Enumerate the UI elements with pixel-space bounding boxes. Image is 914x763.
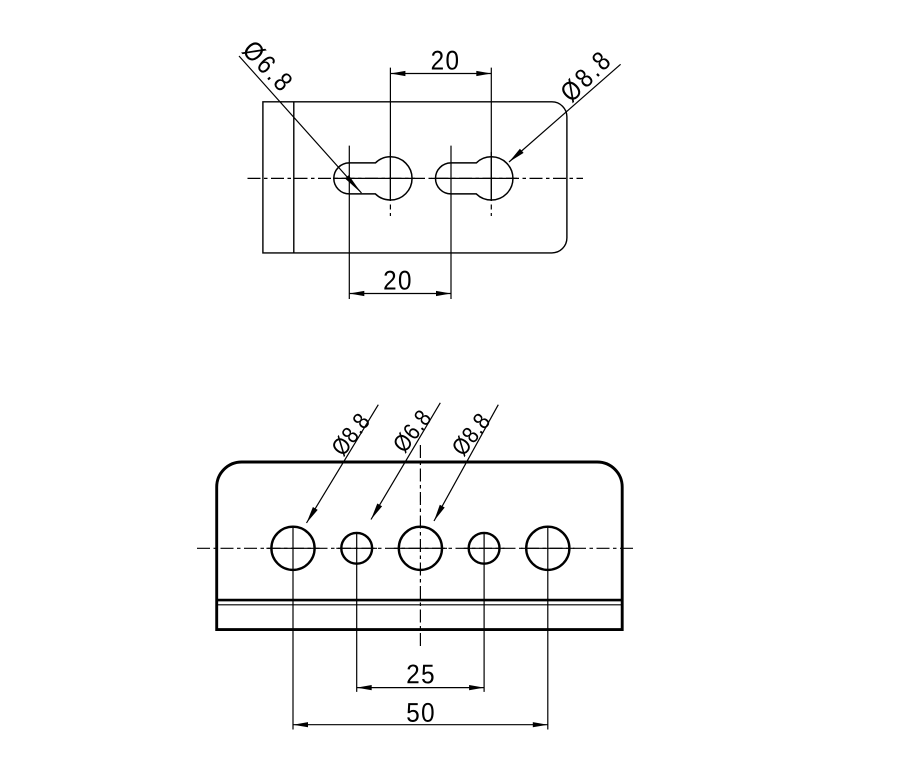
dimension 25 text xyxy=(407,664,433,683)
extension line left slot small circle xyxy=(348,146,350,299)
leader arrowhead hole 2 xyxy=(371,504,382,520)
vertical centerline right slot large circle xyxy=(490,68,492,216)
vertical centerline (bottom view middle) xyxy=(419,445,421,648)
leader arrowhead hole 1 xyxy=(307,507,318,523)
label diameter 8.8 (hole 3) xyxy=(450,412,491,458)
dimension 25 line xyxy=(357,687,484,689)
hole 3 (diameter 8.8) xyxy=(399,527,442,570)
dimension 20 (bottom) line xyxy=(349,293,451,295)
leader line diameter 8.8 to hole 3 xyxy=(434,405,498,521)
leader arrowhead diameter 6.8 xyxy=(345,175,362,193)
bend line (inner vertical edge) xyxy=(293,102,295,253)
horizontal centerline (top view) xyxy=(248,177,584,179)
dimension 20 (bottom) left arrowhead xyxy=(349,291,364,296)
hole 5 (diameter 8.8) xyxy=(526,527,569,570)
thick edge line (bottom view) xyxy=(217,599,623,602)
extension line hole 2 xyxy=(356,532,358,692)
thin edge line (bottom view) xyxy=(217,604,623,606)
left keyhole slot xyxy=(334,157,412,200)
horizontal centerline (bottom view) xyxy=(197,547,635,549)
centerline solid segment through left slot xyxy=(333,177,415,179)
dimension 50 line xyxy=(293,724,548,726)
extension line right slot small circle xyxy=(450,146,452,299)
right keyhole slot xyxy=(435,157,512,200)
vertical centerline left slot large circle xyxy=(389,68,391,216)
extension line hole 1 xyxy=(292,526,294,730)
hole 4 (diameter 6.8) xyxy=(469,533,500,564)
centerline solid segments through holes xyxy=(266,547,319,549)
dimension 20 (bottom) text xyxy=(384,271,410,290)
dimension 20 (top) line xyxy=(390,73,491,75)
leader line diameter 6.8 (top view) xyxy=(239,56,362,193)
part outline (top view plate) xyxy=(263,102,567,253)
extension line hole 5 xyxy=(547,526,549,730)
leader arrowhead hole 3 xyxy=(434,505,445,521)
dimension 20 (bottom) right arrowhead xyxy=(436,291,451,296)
label diameter 6.8 (hole 2) xyxy=(391,408,432,454)
dimension 50 text xyxy=(407,703,433,722)
label diameter 6.8 (top view) xyxy=(241,39,294,93)
leader arrowhead diameter 8.8 (top view) xyxy=(509,149,524,162)
leader line diameter 8.8 to hole 1 xyxy=(307,405,379,523)
dimension 50 right arrowhead xyxy=(533,722,548,727)
centerline solid segments through slot large circles xyxy=(389,152,391,201)
label diameter 8.8 (top view) xyxy=(558,50,611,103)
dimension 20 (top) left arrowhead xyxy=(390,71,405,76)
dimension 20 (top) text xyxy=(432,51,458,70)
dimension 25 left arrowhead xyxy=(357,685,372,690)
part outline (bottom view plate) xyxy=(217,462,623,630)
dimension 25 right arrowhead xyxy=(469,685,484,690)
centerline solid segment through right slot xyxy=(432,177,518,179)
leader line diameter 8.8 (top view) xyxy=(509,64,621,162)
hole 2 (diameter 6.8) xyxy=(341,533,372,564)
extension line hole 4 xyxy=(483,532,485,692)
dimension 50 left arrowhead xyxy=(293,722,308,727)
leader line diameter 6.8 to hole 2 xyxy=(371,403,440,520)
hole 1 (diameter 8.8) xyxy=(271,527,314,570)
label diameter 8.8 (hole 1) xyxy=(330,412,371,458)
dimension 20 (top) right arrowhead xyxy=(476,71,491,76)
